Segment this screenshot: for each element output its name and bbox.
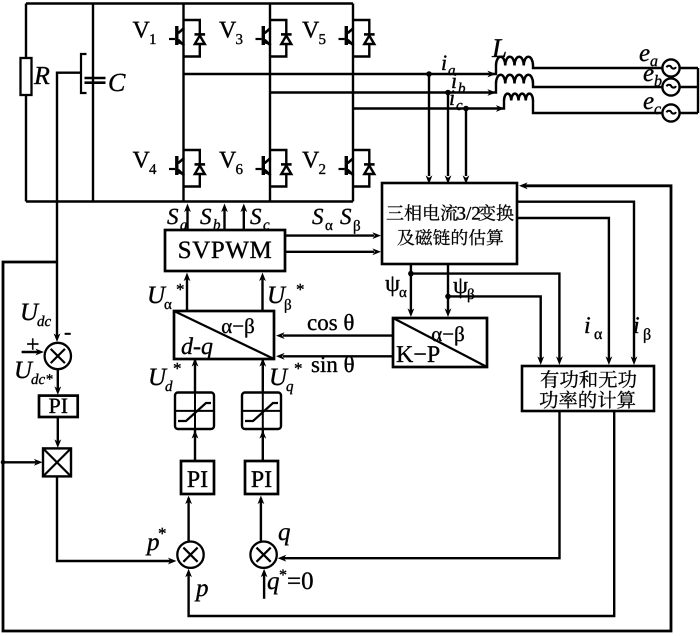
wire p feedback [189, 411, 615, 616]
label Sb [200, 209, 211, 224]
multiplier Udc compare [45, 343, 71, 369]
label ialpha [585, 317, 590, 333]
transistor V4 [169, 150, 205, 187]
label C [109, 74, 125, 91]
wire Uq* column [262, 359, 264, 393]
label ia [442, 55, 446, 70]
label Sc [250, 209, 261, 224]
wire Udc* input [22, 351, 38, 353]
label sin theta [312, 356, 354, 372]
gate signal Sb [223, 207, 225, 230]
wire ib tap [445, 90, 451, 96]
transistor V1 [169, 20, 205, 57]
wire Sbeta to estimator [285, 251, 374, 253]
wire bridge leg 1 [182, 4, 184, 202]
wire limiter d input [194, 429, 196, 461]
resistor R [21, 58, 32, 95]
wire phase b to source [533, 84, 698, 88]
wire Udc branch to multiplier [1, 460, 6, 465]
wire ibeta out [517, 202, 634, 360]
wire cos theta [283, 334, 393, 336]
wire bridge leg 2 [269, 4, 271, 202]
label ec [644, 97, 654, 109]
inductor La [496, 57, 533, 66]
wire q* reference [263, 572, 265, 599]
AC source eb [662, 78, 679, 95]
block three-phase 3/2 transform and flux estimator [382, 183, 517, 264]
wire PI to multiplier [57, 417, 59, 442]
label ib [452, 73, 456, 88]
limiter d axis [175, 393, 214, 430]
wire ialpha out [517, 218, 609, 360]
Udc sense bracket [81, 54, 87, 93]
transistor V2 [339, 150, 375, 187]
AC source ea [662, 59, 679, 76]
wire Salpha to estimator [285, 234, 374, 236]
wire Ubeta* to SVPWM [261, 278, 263, 311]
wire psi beta branch [448, 296, 541, 360]
multiplier Udc x PI [43, 448, 71, 476]
wire ic tap [463, 106, 469, 112]
multiplier q compare [250, 542, 276, 568]
label p* [146, 538, 159, 555]
label Salpha Sbeta [312, 209, 323, 224]
wire q error to PI [260, 498, 262, 542]
wire phase a [184, 66, 497, 75]
label ea [640, 49, 650, 61]
wire phase a to source [533, 66, 698, 69]
label V1 [133, 22, 150, 38]
wire psi beta [447, 264, 449, 312]
wire ia tap [426, 71, 432, 77]
label minus [65, 333, 71, 335]
label Udc* [16, 362, 33, 379]
wire top DC rail [26, 2, 353, 4]
AC source ec [662, 104, 679, 121]
label R [34, 67, 50, 84]
label cos theta [308, 314, 354, 330]
wire p error to PI [187, 498, 189, 542]
label eb [644, 69, 654, 81]
label V5 [302, 22, 319, 38]
current arrow ia [487, 71, 496, 78]
block active and reactive power calculator [522, 366, 654, 411]
wire psi alpha [410, 264, 412, 312]
block alphabeta to KP transform [393, 318, 487, 367]
inductor Lb [496, 75, 533, 84]
wire capacitor branch [92, 4, 94, 202]
wire phase c [353, 101, 504, 109]
gate signal Sa [186, 207, 188, 230]
label L [492, 39, 506, 57]
wire bridge leg 3 [352, 4, 354, 202]
current arrow ic [496, 105, 505, 112]
block SVPWM [165, 230, 285, 271]
label V3 [219, 22, 236, 38]
transistor V5 [339, 20, 375, 57]
label V2 [302, 152, 319, 168]
wire Ud* column [194, 359, 196, 393]
limiter q axis [242, 393, 281, 430]
label psi alpha [385, 277, 399, 297]
transistor V3 [256, 20, 292, 57]
label q [279, 528, 290, 545]
capacitor C [85, 78, 106, 83]
wire Udc sense to comparator [56, 262, 58, 336]
label ic [450, 90, 454, 105]
multiplier p* compare [177, 542, 203, 568]
wire sin theta [283, 355, 393, 357]
transistor V6 [256, 150, 292, 187]
label psi beta [453, 279, 467, 299]
block PI d axis [181, 461, 214, 494]
label Ubeta* [269, 287, 286, 304]
wire left DC branch [25, 4, 27, 202]
block PI q axis [245, 461, 278, 494]
block PI Udc [39, 396, 78, 417]
label V4 [133, 152, 150, 168]
wire q feedback [282, 411, 560, 558]
gate signal Sc [243, 207, 245, 230]
wire phase b [270, 84, 496, 93]
label V6 [219, 152, 236, 168]
wire psi alpha branch [411, 274, 560, 360]
label Sa [167, 209, 178, 224]
wire source neutral [697, 68, 699, 113]
label ibeta [634, 317, 639, 333]
wire comparator to PI [57, 369, 59, 390]
wire bottom DC rail [26, 200, 353, 202]
label plus [27, 338, 38, 349]
label Ud* [150, 369, 167, 386]
label Udc [22, 304, 39, 321]
label p [195, 584, 208, 601]
wire outer Udc feedback loop [3, 186, 671, 631]
wire phase c to source [533, 101, 698, 114]
block dq to alphabeta transform [174, 311, 274, 359]
label q*=0 [268, 577, 279, 594]
inductor Lc [504, 94, 533, 101]
wire Ualpha* to SVPWM [186, 278, 188, 311]
wire p* command [57, 476, 170, 561]
label Uq* [271, 369, 288, 386]
wire Udc tap [57, 73, 81, 262]
wire limiter q input [262, 429, 264, 461]
current arrow ib [487, 89, 496, 96]
label Ualpha* [149, 287, 166, 304]
